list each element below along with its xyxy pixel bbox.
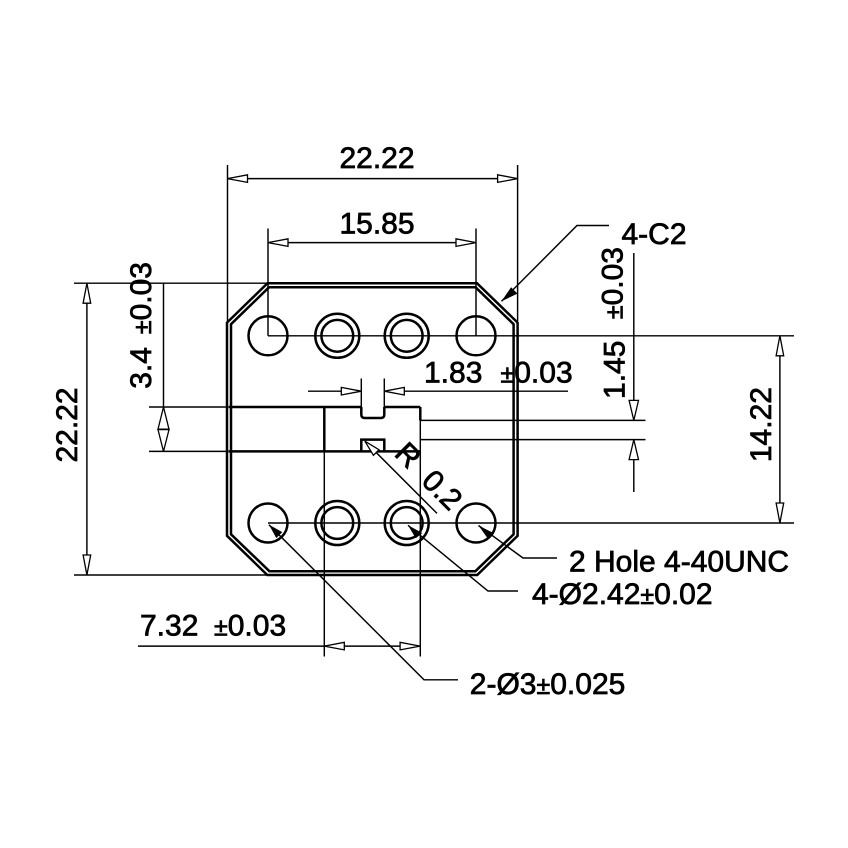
dim 22.22 top: left arrow	[228, 175, 248, 183]
dim 14.22: line	[779, 336, 781, 523]
dim 1.45: lower line	[633, 440, 635, 492]
dim 22.22 top: left extension	[227, 165, 229, 321]
svg-text:22.22: 22.22	[339, 142, 414, 175]
svg-text:2 Hole 4-40UNC: 2 Hole 4-40UNC	[569, 546, 789, 579]
dim 1.45: up arrow	[629, 440, 638, 460]
svg-text:14.22: 14.22	[745, 387, 778, 462]
7.32 right extension line	[419, 420, 421, 656]
svg-text:3.4: 3.4	[125, 347, 158, 389]
hole A3 threaded top	[385, 314, 429, 358]
label 2 Hole 4-40UNC: leader	[479, 526, 558, 559]
svg-text:7.32: 7.32	[140, 610, 198, 643]
dim 22.22 left: top arrow	[83, 283, 91, 303]
top row centerline horizontal	[268, 335, 794, 337]
dim 15.85: left arrow	[268, 239, 288, 247]
dim 7.32: line	[138, 645, 420, 647]
svg-text:±0.03: ±0.03	[125, 262, 158, 334]
label R 0.2: open arrow	[365, 441, 379, 455]
dim 1.83: left arrow	[341, 387, 361, 395]
svg-text:2-Ø3±0.025: 2-Ø3±0.025	[470, 668, 626, 701]
dim 3.4: line	[163, 283, 165, 451]
dim 1.83: left line segment	[308, 390, 361, 392]
hole A1 plain top-left	[249, 316, 288, 355]
channel bottom edge	[229, 450, 421, 453]
svg-text:±0.03: ±0.03	[597, 247, 630, 319]
svg-text:±0.03: ±0.03	[214, 610, 286, 643]
dim 3.4: down arrow	[158, 430, 169, 452]
dim 22.22 left: top extension	[74, 282, 267, 284]
channel step right vertical	[419, 407, 422, 420]
channel bottom extension left	[149, 450, 228, 452]
dim 14.22: top arrow	[776, 336, 784, 356]
dim 22.22 left: bottom arrow	[83, 555, 91, 575]
dim 22.22 top: right arrow	[498, 175, 518, 183]
dim 22.22 left: bottom extension	[74, 574, 267, 576]
hole A4 centerline vertical / 15.85 extension right	[475, 229, 477, 336]
hole B3 threaded bottom	[385, 501, 429, 545]
svg-text:±0.03: ±0.03	[501, 356, 573, 389]
part outer outline octagon	[227, 283, 518, 575]
hole B2 threaded bottom	[315, 501, 359, 545]
tab outline	[361, 440, 384, 452]
hole A2 threaded top	[315, 314, 359, 358]
hole A1 centerline vertical / 15.85 extension left	[267, 229, 269, 336]
label 4-C2: arrow	[502, 287, 518, 301]
slot outline	[361, 407, 384, 418]
dim 14.22: bottom arrow	[776, 503, 784, 523]
svg-text:22.22: 22.22	[51, 387, 84, 462]
hole B4 plain bottom-right	[457, 504, 496, 543]
slot extension line right	[383, 379, 385, 408]
dim 1.83: right arrow	[384, 387, 404, 395]
svg-text:4-C2: 4-C2	[622, 218, 687, 251]
dim 1.45: upper line	[633, 253, 635, 420]
dim 22.22 top: right extension	[517, 165, 519, 321]
bottom row centerline horizontal	[268, 522, 794, 524]
label 2-dia3: leader	[269, 525, 458, 680]
channel top edge mid	[384, 406, 420, 409]
channel top edge right	[420, 419, 645, 421]
label R 0.2: leader	[365, 441, 437, 513]
dim 22.22 top: line	[228, 178, 518, 180]
dim 1.45: down arrow	[629, 400, 638, 420]
svg-text:1.45: 1.45	[598, 341, 631, 399]
dim 7.32: right arrow	[400, 642, 420, 650]
part inner chamfer outline octagon	[231, 287, 514, 571]
slot extension line left	[360, 379, 362, 408]
channel top edge left	[229, 406, 362, 409]
label 4-C2: leader	[502, 226, 610, 302]
svg-text:15.85: 15.85	[339, 208, 414, 241]
svg-text:4-Ø2.42±0.02: 4-Ø2.42±0.02	[532, 578, 713, 611]
label 2 Hole 4-40UNC: arrow	[479, 526, 495, 539]
label 4-dia2.42: arrow	[408, 525, 422, 538]
hole A4 plain top-right	[457, 316, 496, 355]
label 2-dia3: arrow	[269, 525, 282, 538]
dim 3.4: up arrow	[158, 407, 169, 429]
dim 7.32: left arrow	[324, 642, 344, 650]
channel block left vertical	[323, 407, 326, 451]
dim 15.85: line	[268, 242, 476, 244]
hole B1 plain bottom-left	[249, 504, 288, 543]
dim 1.83: right line segment	[384, 390, 568, 392]
tab top extension right	[420, 439, 645, 441]
svg-text:1.83: 1.83	[424, 356, 482, 389]
channel top edge extension left	[149, 406, 228, 408]
7.32 left extension line	[323, 451, 325, 656]
dim 22.22 left: line	[86, 283, 88, 575]
label 4-dia2.42: leader	[408, 525, 518, 591]
dim 15.85: right arrow	[456, 239, 476, 247]
